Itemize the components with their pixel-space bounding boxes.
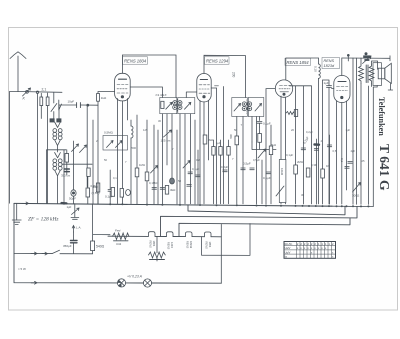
tube V4 RENS 1823d (334, 76, 350, 103)
small ground a (71, 204, 79, 220)
label RENS 1823d (322, 58, 340, 69)
heater shunt resistor (149, 237, 166, 262)
svg-text:0,1: 0,1 (340, 158, 344, 163)
svg-text:3kΩ: 3kΩ (170, 188, 176, 192)
wire V2 plate up (204, 55, 246, 97)
wire (74, 176, 88, 203)
capacitor x198 (196, 175, 200, 177)
middle column wires group 1 (137, 115, 198, 204)
wire V1 side to right (130, 87, 162, 98)
wire V1 cathode/grid leads (118, 99, 128, 204)
wire V3 top (286, 58, 319, 80)
wire x59 drop (58, 105, 60, 119)
resistor row small A (212, 147, 215, 156)
antenna bandfilter coil L1 (53, 122, 62, 152)
wire IFT1 top right to V2 (186, 92, 196, 98)
svg-text:2MΩ: 2MΩ (297, 160, 303, 164)
wire det (252, 127, 276, 150)
dial lamp 2 (143, 279, 151, 287)
capacitor right C (327, 145, 331, 147)
label RENS 1804 (123, 57, 148, 64)
grid resistor 1k top (97, 94, 100, 102)
bus left elbow connector (22, 202, 29, 205)
lamp connector arrow (31, 281, 37, 284)
svg-text:+V 0,23 A: +V 0,23 A (127, 275, 143, 279)
svg-text:1854: 1854 (208, 242, 212, 248)
svg-text:1294: 1294 (170, 242, 174, 248)
electrolytic right (315, 143, 320, 146)
svg-text:50: 50 (178, 179, 182, 183)
tube V3 RENS 1854 (275, 80, 292, 97)
ground symbol main (12, 203, 21, 224)
antenna coupling connector (26, 90, 29, 93)
svg-text:RENS: RENS (167, 242, 171, 249)
wire coil tap (47, 150, 67, 204)
svg-text:0,1MΩ: 0,1MΩ (149, 181, 157, 185)
coil 0,1 small vertical (319, 64, 321, 204)
capacitor 1uF V4 grid (323, 80, 332, 204)
wire V4 right column (353, 58, 368, 204)
svg-text:1μF: 1μF (346, 128, 351, 132)
switch block contacts (50, 119, 54, 122)
trimmer capacitor T2 (80, 145, 87, 153)
top right bus (342, 56, 390, 61)
capacitor pair under V1 (108, 170, 113, 204)
capacitor mid row C (187, 185, 192, 187)
wire right columns (317, 135, 330, 204)
resistor mid A (135, 168, 139, 177)
svg-text:0,10: 0,10 (314, 66, 318, 72)
resistor 30k (235, 136, 239, 145)
label RENS 1854 (285, 58, 311, 65)
wire V3 screen row (290, 86, 312, 204)
middle band extra components (111, 128, 330, 197)
heater V3 filament (204, 232, 211, 237)
heater V2 filament (166, 232, 173, 237)
electrolytic x128 (126, 190, 131, 196)
resistor grid leak left (65, 154, 69, 163)
capacitor right B (314, 149, 318, 151)
svg-text:125: 125 (143, 128, 148, 132)
mains filter capacitor 1uF a (62, 202, 67, 205)
svg-text:1μF: 1μF (67, 205, 72, 209)
resistor right C (321, 169, 325, 178)
wire V1 grid left (98, 92, 115, 204)
svg-text:0,2: 0,2 (196, 158, 200, 162)
svg-text:RENS: RENS (205, 242, 209, 249)
speaker (373, 63, 391, 86)
wire 540 leads (93, 204, 110, 254)
svg-text:20: 20 (291, 128, 294, 132)
antenna (10, 52, 26, 92)
padder capacitor (64, 169, 69, 172)
output transformer T1 (359, 65, 374, 84)
heater feed lines nested (161, 207, 358, 237)
wire V4 bottom (337, 101, 347, 204)
resistor antenna series 2 (40, 97, 43, 106)
wire AF coupling y105 (59, 104, 98, 106)
svg-text:4μF: 4μF (351, 149, 356, 153)
svg-text:30: 30 (301, 193, 305, 197)
choke L.A. (72, 226, 75, 233)
svg-text:ZF = 128 kHz: ZF = 128 kHz (28, 217, 59, 223)
wavechange switch (51, 93, 62, 119)
capacitor electrolytic 50uF (71, 190, 76, 196)
blob capacitor block (363, 55, 370, 58)
wire antenna down lead (10, 92, 19, 204)
bus tick connector (347, 56, 349, 62)
svg-text:Rö./Nr.: Rö./Nr. (285, 242, 293, 246)
svg-text:350μF: 350μF (63, 244, 72, 248)
wire right drop to bus (332, 87, 373, 207)
svg-text:25: 25 (362, 159, 365, 163)
svg-text:1823d: 1823d (324, 64, 335, 68)
svg-text:500: 500 (132, 146, 137, 150)
capacitor columns right of V2 (241, 168, 271, 174)
wire osc tap (62, 163, 92, 165)
table Roehren chart (284, 242, 336, 259)
switch contact (52, 250, 60, 253)
svg-text:50μF: 50μF (69, 197, 76, 201)
svg-text:RENS: RENS (186, 241, 190, 248)
svg-text:U42: U42 (116, 242, 122, 246)
svg-text:1804: 1804 (152, 241, 156, 247)
trimmer 125cm (164, 130, 172, 137)
svg-text:0,3M: 0,3M (311, 163, 318, 167)
wire (262, 125, 271, 204)
wire V4 plate top (341, 58, 343, 76)
trimmer mid A (151, 166, 158, 174)
heater line (108, 235, 221, 238)
connector node (36, 91, 38, 93)
resistor 3k (165, 186, 168, 195)
wire mains cap leads (73, 232, 75, 254)
svg-text:Ua/V: Ua/V (285, 246, 291, 250)
wire V2 side right (211, 88, 216, 204)
series capacitor 10pF (77, 103, 81, 108)
value labels scatter (125, 128, 331, 197)
capacitor x225 (223, 170, 227, 172)
svg-text:350 cm: 350 cm (61, 174, 71, 178)
wire (66, 150, 68, 175)
resistor antenna series (46, 97, 49, 106)
wire V4 grid (332, 88, 334, 90)
IF transformer 2 (232, 98, 264, 117)
wire V3 grid left (266, 89, 275, 204)
capacitor right D (345, 162, 352, 169)
svg-text:50: 50 (234, 128, 238, 132)
wire V2 bottom leads (200, 101, 209, 204)
resistor 5k column (269, 146, 272, 155)
IF transformer 1 C1 M13 (156, 93, 195, 114)
resistor right B (306, 168, 310, 177)
wire lamp return up (220, 224, 222, 283)
heater sub frame (202, 224, 251, 256)
trimmer on output (363, 56, 372, 64)
detector diode arrow (258, 149, 266, 158)
svg-text:≈ 5 W: ≈ 5 W (18, 267, 26, 271)
resistor 0,4M (86, 188, 90, 197)
trimmer capacitor T1 (72, 144, 79, 152)
svg-text:Ug/V: Ug/V (285, 250, 291, 254)
resistor 2k under V2 (203, 135, 207, 144)
main ground bus (14, 203, 332, 206)
svg-text:200: 200 (232, 72, 236, 78)
svg-text:0,1μF: 0,1μF (263, 122, 271, 126)
bus junction dots (63, 203, 369, 208)
svg-text:1μF: 1μF (324, 81, 329, 85)
secondary bus (188, 205, 345, 215)
svg-text:0,2μF: 0,2μF (306, 130, 313, 134)
capacitor 350uF (71, 241, 78, 243)
svg-text:Fest: Fest (115, 229, 121, 233)
heater dropper Fest U42 (113, 229, 130, 247)
svg-text:1MΩ: 1MΩ (139, 163, 145, 167)
svg-text:5kΩ: 5kΩ (271, 143, 276, 147)
svg-text:0,1μF: 0,1μF (192, 167, 199, 171)
svg-text:540Ω: 540Ω (96, 245, 105, 249)
mains connector arrows (31, 252, 48, 255)
resistor row small C (227, 147, 230, 156)
wire tuning lead A (37, 93, 39, 203)
wire transformer top leads (361, 58, 378, 86)
wire IFT1 bottom leads (162, 114, 190, 204)
mains trimmer arrow (72, 208, 80, 215)
svg-text:RENS: RENS (149, 241, 153, 248)
svg-text:2,1: 2,1 (42, 88, 47, 92)
svg-text:0,5μF: 0,5μF (253, 158, 260, 162)
capacitor right A (301, 148, 305, 150)
capacitor x190 (188, 172, 192, 174)
svg-text:1μF: 1μF (216, 141, 221, 145)
capacitor mid row y188 A (152, 188, 157, 190)
wire resistor leads (41, 93, 47, 204)
wire antenna input line (18, 91, 62, 94)
label RENS 1294 (205, 57, 230, 64)
wire V1 plate to IFT1 (122, 55, 176, 98)
svg-text:0,5: 0,5 (333, 149, 337, 153)
AVC network box (103, 136, 128, 151)
wire (97, 192, 99, 204)
mains switch line (14, 203, 93, 253)
svg-text:0,1μF: 0,1μF (263, 176, 271, 180)
junction dot y105 (87, 104, 89, 106)
svg-text:Telefunken: Telefunken (377, 97, 386, 136)
svg-text:0,5MΩ: 0,5MΩ (104, 131, 114, 135)
heater V1 filament (148, 232, 155, 237)
resistor box x118 (111, 188, 114, 197)
lamp supply line (14, 253, 221, 283)
capacitor mid row y188 B (160, 188, 165, 190)
svg-text:1M: 1M (326, 164, 331, 168)
wire IFT2 bottom leads (237, 117, 260, 204)
wire speaker return (373, 84, 392, 91)
svg-text:1kΩ: 1kΩ (93, 185, 99, 189)
svg-text:0,1: 0,1 (113, 176, 117, 180)
svg-text:RENS 1294: RENS 1294 (206, 59, 229, 64)
svg-text:RENS 1804: RENS 1804 (124, 59, 147, 64)
electrolytic mid (170, 178, 175, 184)
resistor det (258, 134, 262, 143)
svg-text:1823d: 1823d (189, 241, 193, 249)
svg-text:30: 30 (158, 119, 161, 123)
svg-text:0,5μF: 0,5μF (221, 165, 228, 169)
svg-text:L.A.: L.A. (76, 226, 82, 230)
resistor row small B (219, 147, 222, 156)
antenna bandfilter coil L2 (53, 153, 62, 204)
svg-text:C1 M13: C1 M13 (156, 93, 167, 97)
tube V1 RENS 1804 (115, 73, 131, 101)
svg-text:10pF: 10pF (68, 100, 75, 104)
tube V2 RENS 1294 (197, 74, 211, 102)
potentiometer volume tall (276, 160, 286, 203)
wire osc section (64, 105, 93, 204)
extra value labels scatter 2 (96, 119, 365, 180)
svg-text:300Ω: 300Ω (352, 194, 360, 198)
wire V3 bottom (281, 96, 286, 204)
svg-text:RENS: RENS (324, 59, 335, 63)
heater V4 filament (185, 232, 192, 237)
resistor 540 (91, 241, 95, 251)
oscillator coil 500 (131, 120, 133, 204)
capacitor 0,1 right of IFT2 (257, 122, 262, 128)
trimmer mid B (183, 161, 190, 169)
svg-text:T 641 G: T 641 G (377, 144, 392, 191)
cathode resistor V3 (286, 112, 294, 115)
resistor right A (294, 165, 298, 174)
svg-text:0,1μF: 0,1μF (286, 153, 293, 157)
svg-text:0,5μF: 0,5μF (243, 162, 251, 166)
grid resistor 1k (96, 183, 99, 192)
svg-text:1kΩ: 1kΩ (101, 96, 107, 100)
junction T (215, 85, 219, 87)
wire (236, 145, 238, 204)
svg-text:RENS 1854: RENS 1854 (287, 60, 310, 65)
resistor osc right (87, 168, 90, 176)
svg-text:50: 50 (104, 158, 107, 162)
resistor mid B (145, 172, 149, 181)
svg-text:30k: 30k (229, 134, 233, 139)
svg-text:10kΩ: 10kΩ (280, 168, 284, 176)
trimmer capacitor antenna (23, 88, 31, 96)
dial lamp 1 (117, 279, 125, 287)
wire column group mid (214, 87, 229, 204)
trimmer right edge (353, 183, 361, 193)
